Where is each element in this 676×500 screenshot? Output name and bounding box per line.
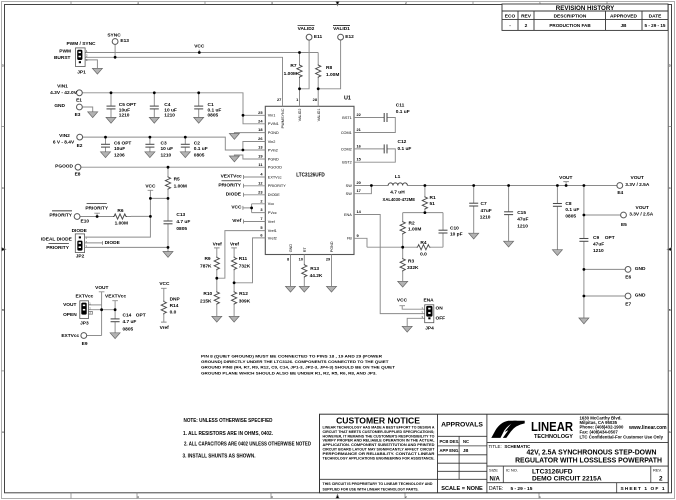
svg-text:NOTE: UNLESS OTHERWISE SPECIFI: NOTE: UNLESS OTHERWISE SPECIFIED — [184, 418, 273, 424]
svg-text:6: 6 — [260, 233, 263, 238]
svg-text:R8: R8 — [326, 65, 332, 71]
svg-text:Vcc: Vcc — [268, 202, 274, 206]
svg-text:16: 16 — [357, 143, 362, 148]
svg-text:R3: R3 — [408, 259, 414, 265]
svg-text:PRIORITY: PRIORITY — [268, 184, 286, 188]
svg-text:0805: 0805 — [176, 226, 187, 232]
svg-text:4.3V - 42.0V: 4.3V - 42.0V — [50, 90, 77, 96]
svg-text:21: 21 — [357, 127, 362, 132]
svg-text:26: 26 — [258, 136, 263, 141]
svg-text:L1: L1 — [395, 174, 401, 180]
svg-text:1.00M: 1.00M — [284, 71, 297, 77]
svg-text:C8: C8 — [565, 201, 571, 207]
svg-text:10 pF: 10 pF — [450, 232, 463, 238]
svg-text:VCC: VCC — [397, 298, 408, 304]
svg-text:787K: 787K — [200, 264, 212, 270]
svg-text:3. INSTALL SHUNTS AS SHOWN.: 3. INSTALL SHUNTS AS SHOWN. — [183, 454, 257, 460]
svg-text:COM1: COM1 — [341, 131, 352, 135]
svg-text:B: B — [669, 308, 671, 312]
svg-text:22: 22 — [357, 112, 362, 117]
svg-text:BST2: BST2 — [342, 161, 352, 165]
svg-text:E3: E3 — [75, 112, 81, 118]
svg-text:JP3: JP3 — [80, 321, 89, 327]
svg-text:0805: 0805 — [565, 214, 576, 220]
svg-text:PVcc: PVcc — [268, 211, 277, 215]
svg-text:12: 12 — [258, 180, 263, 185]
svg-text:24: 24 — [258, 118, 263, 123]
svg-text:PRIORITY: PRIORITY — [85, 205, 108, 211]
svg-text:RT: RT — [303, 247, 307, 253]
svg-text:PIN 8 (QUIET GROUND) MUST BE: PIN 8 (QUIET GROUND) MUST BE CONNECTED T… — [201, 353, 382, 358]
svg-text:VCC: VCC — [145, 183, 156, 189]
svg-text:OFF: OFF — [436, 316, 446, 322]
svg-text:R5: R5 — [174, 177, 180, 183]
svg-text:PRIORITY: PRIORITY — [49, 213, 72, 219]
svg-text:Vin2: Vin2 — [268, 140, 276, 144]
svg-text:PGND: PGND — [330, 241, 334, 252]
svg-text:0805: 0805 — [123, 327, 134, 333]
svg-text:0805: 0805 — [208, 113, 219, 119]
svg-text:1.00M: 1.00M — [115, 220, 128, 226]
svg-text:DIODE: DIODE — [226, 192, 242, 198]
svg-text:SCALE = NONE: SCALE = NONE — [441, 486, 483, 492]
svg-text:R11: R11 — [239, 256, 248, 262]
svg-text:N/A: N/A — [490, 476, 501, 482]
svg-text:19: 19 — [258, 154, 263, 159]
svg-text:PGOOD: PGOOD — [268, 166, 282, 170]
svg-text:18: 18 — [258, 127, 263, 132]
svg-text:10uF: 10uF — [114, 146, 125, 152]
svg-text:JP4: JP4 — [425, 325, 434, 331]
svg-text:10: 10 — [299, 256, 303, 261]
svg-text:PWM: PWM — [59, 49, 71, 55]
svg-text:5: 5 — [260, 225, 263, 230]
svg-text:1.00M: 1.00M — [408, 226, 421, 232]
svg-text:C10: C10 — [450, 226, 459, 232]
svg-text:BST1: BST1 — [342, 116, 352, 120]
svg-text:15: 15 — [357, 157, 362, 162]
svg-text:VOUT: VOUT — [631, 175, 644, 181]
svg-text:TITLE: SCHEMATIC: TITLE: SCHEMATIC — [489, 444, 532, 449]
svg-text:GROUND PIN8 (R4, R7, R9, R12,: GROUND PIN8 (R4, R7, R9, R12, C9, C14, J… — [201, 365, 396, 370]
svg-text:TECHNOLOGY APPLICATIONS ENGINE: TECHNOLOGY APPLICATIONS ENGINEERING FOR … — [323, 455, 435, 460]
svg-text:C7: C7 — [481, 201, 487, 207]
svg-text:E10: E10 — [81, 218, 90, 224]
svg-text:SW: SW — [346, 184, 353, 188]
svg-text:C12: C12 — [398, 139, 407, 145]
svg-text:51: 51 — [430, 201, 436, 207]
svg-text:B: B — [2, 308, 4, 312]
svg-text:R7: R7 — [290, 63, 296, 69]
svg-text:LTC Confidential-For Customer: LTC Confidential-For Customer Use Only — [580, 435, 664, 440]
svg-text:R12: R12 — [239, 291, 248, 297]
svg-text:APPROVED: APPROVED — [610, 14, 637, 20]
svg-text:25: 25 — [258, 110, 263, 115]
svg-text:VOUT: VOUT — [636, 205, 649, 211]
svg-text:LINEAR: LINEAR — [531, 419, 573, 434]
svg-text:DIODE: DIODE — [268, 193, 280, 197]
svg-text:1.00M: 1.00M — [174, 184, 187, 190]
svg-text:ON: ON — [436, 306, 444, 312]
svg-text:2. ALL CAPACITORS ARE 0402 UN: 2. ALL CAPACITORS ARE 0402 UNLESS OTHERW… — [184, 442, 311, 448]
svg-text:3.3V / 2.5A: 3.3V / 2.5A — [625, 182, 650, 188]
svg-text:SHEET 1 OF 1: SHEET 1 OF 1 — [621, 486, 665, 492]
svg-text:Vref2: Vref2 — [268, 236, 277, 240]
svg-text:1210: 1210 — [161, 153, 172, 159]
svg-text:TECHNOLOGY: TECHNOLOGY — [534, 434, 574, 440]
svg-text:GND: GND — [635, 293, 646, 299]
svg-text:5 - 29 - 15: 5 - 29 - 15 — [645, 23, 666, 28]
svg-text:EXTVcc: EXTVcc — [75, 294, 93, 300]
svg-text:1210: 1210 — [164, 113, 175, 119]
svg-text:VIN2: VIN2 — [59, 133, 70, 139]
svg-text:C6 OPT: C6 OPT — [114, 141, 131, 147]
svg-text:APPROVALS: APPROVALS — [441, 422, 483, 429]
svg-text:REVISION HISTORY: REVISION HISTORY — [556, 5, 615, 12]
svg-text:27: 27 — [277, 97, 281, 102]
svg-text:C1: C1 — [208, 102, 214, 108]
svg-text:PVin2: PVin2 — [268, 148, 278, 152]
svg-text:Vref: Vref — [213, 241, 222, 247]
svg-text:PVIN1: PVIN1 — [268, 122, 279, 126]
svg-text:APP ENG.: APP ENG. — [440, 448, 460, 453]
svg-text:1210: 1210 — [119, 113, 130, 119]
svg-text:Vin1: Vin1 — [268, 114, 276, 118]
svg-text:C2: C2 — [194, 141, 200, 147]
svg-text:Vref: Vref — [268, 220, 276, 224]
svg-text:VALID2: VALID2 — [298, 109, 302, 122]
svg-text:E13: E13 — [120, 38, 129, 44]
svg-text:VCC: VCC — [194, 43, 205, 49]
svg-text:Vref: Vref — [230, 241, 239, 247]
svg-text:10uF: 10uF — [119, 107, 130, 113]
svg-text:XAL4030-472ME: XAL4030-472ME — [383, 197, 416, 203]
svg-text:VEXTVcc: VEXTVcc — [221, 174, 242, 180]
svg-text:C4: C4 — [164, 102, 170, 108]
svg-text:LTC3126UFD: LTC3126UFD — [296, 172, 325, 178]
svg-text:R1: R1 — [430, 195, 436, 201]
svg-text:4: 4 — [260, 172, 263, 177]
svg-text:VOUT: VOUT — [63, 302, 76, 308]
svg-text:OPEN: OPEN — [63, 312, 77, 318]
svg-text:ECO: ECO — [505, 14, 516, 20]
svg-text:Vref: Vref — [232, 218, 241, 224]
svg-text:47uF: 47uF — [593, 242, 604, 248]
svg-text:VEXTVcc: VEXTVcc — [105, 294, 126, 300]
svg-text:C13: C13 — [176, 212, 185, 218]
svg-text:www.linear.com: www.linear.com — [628, 425, 667, 431]
svg-text:44.2K: 44.2K — [310, 273, 323, 279]
svg-text:Vref: Vref — [160, 325, 169, 331]
svg-text:ENA: ENA — [424, 298, 435, 304]
svg-text:1210: 1210 — [517, 223, 528, 229]
svg-text:1. ALL RESISTORS ARE IN OHMS,: 1. ALL RESISTORS ARE IN OHMS, 0402. — [183, 431, 274, 437]
svg-text:REGULATOR WITH LOSSLESS POWERP: REGULATOR WITH LOSSLESS POWERPATH — [515, 457, 662, 464]
svg-text:732K: 732K — [239, 264, 251, 270]
svg-text:VALID1: VALID1 — [317, 109, 321, 122]
svg-text:VALID2: VALID2 — [298, 26, 315, 32]
svg-text:GND: GND — [635, 266, 646, 272]
svg-text:13: 13 — [258, 145, 263, 150]
svg-text:Vref1: Vref1 — [268, 229, 277, 233]
svg-text:4.7 uF: 4.7 uF — [176, 219, 190, 225]
svg-text:23: 23 — [258, 189, 263, 194]
svg-text:COM2: COM2 — [341, 147, 352, 151]
svg-text:GROUND PLANE WHICH SHOULD ALSO: GROUND PLANE WHICH SHOULD ALSO BE UNDER … — [201, 370, 377, 375]
svg-text:4.7 uF: 4.7 uF — [123, 319, 137, 325]
svg-text:11: 11 — [258, 162, 263, 167]
svg-text:REV.: REV. — [653, 468, 662, 473]
svg-text:R14: R14 — [170, 303, 179, 309]
svg-text:47uF: 47uF — [517, 217, 528, 223]
svg-text:0.1 uF: 0.1 uF — [208, 107, 222, 113]
svg-text:PGND: PGND — [268, 157, 279, 161]
svg-text:DEMO CIRCUIT 2215A: DEMO CIRCUIT 2215A — [532, 476, 602, 483]
svg-text:2: 2 — [260, 198, 263, 203]
svg-text:EXTVcc: EXTVcc — [268, 175, 282, 179]
svg-text:VCC: VCC — [159, 281, 170, 287]
svg-text:1206: 1206 — [114, 153, 125, 159]
svg-text:VALID1: VALID1 — [333, 26, 350, 32]
svg-text:9: 9 — [357, 233, 360, 238]
svg-text:0.1 uF: 0.1 uF — [396, 109, 410, 115]
svg-text:6 V - 8.4V: 6 V - 8.4V — [53, 140, 75, 146]
svg-text:C9: C9 — [593, 235, 599, 241]
svg-text:LTC3126UFD: LTC3126UFD — [532, 468, 573, 475]
svg-text:1.00M: 1.00M — [326, 72, 339, 78]
svg-text:E7: E7 — [625, 301, 631, 307]
svg-text:8: 8 — [287, 256, 290, 261]
svg-text:17: 17 — [357, 188, 361, 193]
svg-text:C11: C11 — [396, 103, 405, 109]
svg-text:E12: E12 — [345, 34, 354, 40]
svg-text:3.3V / 2.5A: 3.3V / 2.5A — [629, 212, 654, 218]
svg-text:PWM / SYNC: PWM / SYNC — [66, 41, 96, 47]
svg-text:DNP: DNP — [170, 296, 181, 302]
svg-text:29: 29 — [326, 256, 331, 261]
svg-text:PWMSYNC: PWMSYNC — [281, 108, 285, 128]
svg-text:E1: E1 — [76, 98, 82, 104]
svg-text:E5: E5 — [621, 222, 627, 228]
svg-text:NC: NC — [463, 439, 469, 444]
svg-text:E8: E8 — [75, 172, 81, 178]
svg-text:PRODUCTION FAB: PRODUCTION FAB — [549, 23, 591, 28]
svg-text:VOUT: VOUT — [559, 175, 572, 181]
svg-text:3: 3 — [89, 310, 91, 314]
svg-text:C14: C14 — [123, 313, 132, 319]
svg-text:OPT: OPT — [136, 313, 146, 319]
svg-text:E6: E6 — [625, 275, 631, 281]
svg-text:R13: R13 — [310, 266, 319, 272]
svg-text:C3: C3 — [161, 141, 167, 147]
svg-text:10 uF: 10 uF — [161, 146, 174, 152]
svg-text:28: 28 — [313, 97, 318, 102]
svg-text:DIODE: DIODE — [72, 228, 88, 234]
svg-text:7: 7 — [260, 216, 262, 221]
svg-text:R10: R10 — [203, 291, 212, 297]
svg-text:SW: SW — [346, 192, 353, 196]
svg-text:DIODE: DIODE — [105, 240, 121, 246]
svg-text:2: 2 — [659, 475, 663, 482]
svg-text:A: A — [2, 430, 4, 434]
svg-text:R4: R4 — [420, 240, 426, 246]
svg-text:PRIORITY: PRIORITY — [218, 183, 241, 189]
svg-text:PCB DES.: PCB DES. — [440, 439, 460, 444]
svg-text:A: A — [669, 430, 671, 434]
svg-text:C5 OPT: C5 OPT — [119, 102, 136, 108]
svg-text:DESCRIPTION: DESCRIPTION — [554, 14, 587, 20]
svg-text:20: 20 — [357, 180, 361, 185]
svg-text:0805: 0805 — [194, 153, 205, 159]
svg-text:GND: GND — [54, 103, 65, 109]
svg-text:SYNC: SYNC — [107, 33, 121, 39]
svg-text:42V, 2.5A SYNCHRONOUS STEP-DOW: 42V, 2.5A SYNCHRONOUS STEP-DOWN — [526, 449, 656, 456]
svg-text:3: 3 — [260, 207, 263, 212]
svg-text:IDEAL DIODE: IDEAL DIODE — [41, 237, 73, 243]
svg-text:R6: R6 — [117, 208, 123, 214]
svg-text:2: 2 — [525, 23, 528, 29]
svg-text:E4: E4 — [617, 190, 623, 196]
svg-text:VCC: VCC — [231, 205, 242, 211]
svg-text:GROUND) DIRECTLY UNDER THE LTC: GROUND) DIRECTLY UNDER THE LTC3126. COMP… — [201, 359, 389, 364]
svg-text:PGND: PGND — [268, 131, 279, 135]
svg-text:JB: JB — [463, 448, 468, 453]
svg-text:4.7 uH: 4.7 uH — [390, 189, 405, 195]
svg-text:VIN1: VIN1 — [57, 84, 68, 90]
svg-text:SIZE: SIZE — [489, 468, 498, 473]
svg-text:IC NO.: IC NO. — [506, 468, 518, 473]
svg-text:DATE: DATE — [649, 14, 663, 20]
svg-text:1210: 1210 — [480, 215, 491, 221]
svg-text:0.0: 0.0 — [420, 252, 427, 258]
svg-text:PGOOD: PGOOD — [55, 164, 73, 170]
svg-text:14: 14 — [357, 209, 362, 214]
svg-text:SUPPLIED FOR USE WITH LINEAR T: SUPPLIED FOR USE WITH LINEAR TECHNOLOGY … — [323, 486, 419, 491]
svg-text:332K: 332K — [407, 265, 419, 271]
svg-text:FB: FB — [347, 237, 352, 241]
svg-text:VOUT: VOUT — [95, 285, 108, 291]
svg-text:1210: 1210 — [593, 248, 604, 254]
svg-text:PRIORITY: PRIORITY — [46, 245, 69, 251]
svg-text:EXTVcc: EXTVcc — [61, 333, 79, 339]
svg-text:U1: U1 — [344, 96, 351, 102]
svg-text:1: 1 — [296, 97, 299, 102]
svg-text:5 - 29 - 15: 5 - 29 - 15 — [511, 486, 533, 492]
svg-text:309K: 309K — [239, 298, 251, 304]
svg-text:GND: GND — [289, 244, 293, 253]
svg-text:JP1: JP1 — [77, 70, 86, 76]
svg-text:215K: 215K — [200, 298, 212, 304]
svg-text:Fax: (408)434-0507: Fax: (408)434-0507 — [580, 429, 619, 434]
svg-text:E11: E11 — [314, 34, 323, 40]
svg-text:BURST: BURST — [54, 55, 71, 61]
svg-text:E2: E2 — [77, 143, 83, 149]
svg-text:ENA: ENA — [344, 213, 352, 217]
svg-text:R9: R9 — [204, 256, 210, 262]
svg-text:DATE:: DATE: — [489, 486, 503, 492]
svg-text:R2: R2 — [409, 221, 415, 227]
svg-text:JP2: JP2 — [76, 254, 85, 260]
svg-text:0.1 uF: 0.1 uF — [194, 146, 208, 152]
svg-text:0.1 uF: 0.1 uF — [398, 146, 412, 152]
svg-text:47uF: 47uF — [481, 208, 492, 214]
svg-text:0.1 uF: 0.1 uF — [565, 207, 579, 213]
svg-text:E9: E9 — [82, 341, 88, 347]
svg-text:REV: REV — [521, 14, 532, 20]
svg-text:OPT: OPT — [605, 235, 615, 241]
svg-text:10 uF: 10 uF — [164, 107, 177, 113]
svg-text:C15: C15 — [517, 210, 526, 216]
svg-text:0.0: 0.0 — [170, 310, 177, 316]
svg-text:JB: JB — [621, 23, 628, 28]
